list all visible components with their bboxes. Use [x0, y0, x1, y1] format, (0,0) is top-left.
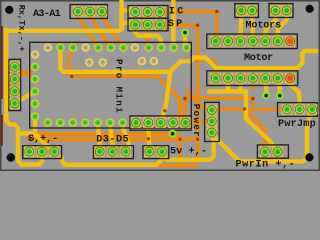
svg-text:Motor: Motor [244, 53, 273, 64]
wire top border horizontal [6, 29, 119, 33]
wire branch to header A pad3 [18, 134, 54, 152]
svg-text:Rx,Tx,-,+: Rx,Tx,-,+ [17, 5, 27, 52]
wire left header X diag 1 [15, 67, 35, 79]
header A3-A1 outline [70, 5, 108, 19]
wire U1 pad k1 to inter-row bus [60, 48, 316, 72]
wire Power pad3 to header C pad2 [162, 134, 213, 160]
wire Motors b2 pad1 diag to Motor1 [265, 17, 275, 41]
IC U1 Pro Mini outline [30, 42, 192, 128]
wire Motor2 pad2 stub down [226, 81, 230, 92]
header Power outline [205, 102, 220, 141]
wire stub into IC row2 pad1 [122, 23, 136, 25]
junction dot [251, 97, 254, 100]
header C pads [144, 146, 155, 157]
wire bar drop to bottom [180, 138, 194, 166]
header Power pads [207, 105, 218, 116]
header IC pads [130, 7, 141, 18]
wire U1 bottom to header B pad3 [123, 127, 129, 148]
wire via stub to U1 pad k11 [183, 33, 187, 48]
wire header L pad2 stub to bar2 [147, 127, 151, 139]
wire Motors b1 pad2 down to Motor1 [250, 17, 255, 41]
header Motors2 pads [270, 5, 281, 16]
svg-text:Pro Mini: Pro Mini [113, 59, 124, 114]
junction dot [183, 97, 186, 100]
header L outline [130, 116, 191, 130]
svg-text:SP: SP [168, 19, 185, 30]
wire Motor2 pad5 to via [263, 81, 268, 92]
mounting hole TR [306, 5, 314, 13]
header J-left outline [9, 59, 21, 110]
header Motors2 outline [269, 4, 293, 18]
header C outline [143, 146, 169, 159]
U1 bottom row pads [43, 118, 52, 127]
wire Motor2 red pad to PwrJmp pad2 [290, 81, 300, 109]
wire left header X diag 2 [15, 67, 35, 79]
board edge frame [1, 1, 320, 171]
junction dot [178, 138, 181, 141]
wire Power pad1 to PwrJmp pad1 [187, 91, 285, 109]
wire Motor2 pad4 stub [251, 81, 255, 89]
svg-text:D3-D5: D3-D5 [96, 134, 129, 145]
wire SP pad3 down right side to bottom [152, 25, 198, 165]
header Motor2 outline [207, 71, 298, 86]
wire U1 bottom to header B pad2 [110, 127, 113, 148]
mounting hole TL [5, 6, 13, 14]
via [276, 92, 284, 100]
svg-text:Motors: Motors [246, 21, 282, 32]
header PwrIn pads [260, 147, 271, 158]
header SP pads [130, 19, 141, 30]
U1 inner ring pads [85, 58, 94, 67]
wire bottom yellow run [62, 154, 162, 165]
svg-text:5v +,-: 5v +,- [170, 146, 207, 157]
via [181, 29, 189, 37]
wire branch V_B to Motor2 pad1 [198, 60, 216, 78]
svg-text:IC: IC [169, 7, 186, 18]
junction dot [196, 24, 199, 27]
header Motor1 outline [207, 34, 297, 49]
wire IC row2 pad1 to U1 pad k9 [135, 25, 161, 47]
wire orange y98 run into header L pad5 [185, 98, 253, 122]
junction dot [243, 107, 246, 110]
wire orange bar2 [29, 137, 198, 141]
svg-text:PwrIn +,-: PwrIn +,- [236, 160, 296, 171]
header A3-A1 pads [73, 6, 84, 17]
wire U1 inner vertical to bottom pad [161, 73, 170, 122]
wire Motors b1 pad1 down to Motor1 [238, 17, 243, 41]
header IC outline [128, 6, 168, 19]
header PwrJmp outline [278, 103, 318, 117]
wire top edge vertical into IC row2 pad1 [119, 0, 123, 30]
junction dot [163, 109, 166, 112]
U1 top row pads [44, 43, 53, 52]
header Motor1 pads [210, 36, 221, 47]
header SP outline [128, 18, 168, 31]
header L pads (shared with U1 bottom row) [131, 117, 142, 128]
header Motors1 pads [236, 5, 247, 16]
wire U1 bottom to header C pad1 [148, 127, 149, 148]
junction dot [147, 137, 150, 140]
header Motors1 outline [235, 4, 259, 18]
svg-text:Power: Power [191, 104, 202, 138]
via [262, 92, 270, 100]
wire left border vertical [6, 30, 42, 165]
wire junction to PwrIn pad1 [245, 109, 265, 150]
wire top edge vertical to U1 pad k10 [171, 0, 176, 47]
junction dot [70, 75, 73, 78]
header B outline [94, 146, 134, 159]
header A outline [23, 146, 62, 159]
header PwrJmp pads [282, 104, 293, 115]
wire U1 pad k2 down and right to U1 bottom pad (O mid) [69, 48, 180, 122]
wire FTDI pad6 stub down [33, 117, 37, 132]
wire A3 pad3 to U1 pad [102, 16, 123, 47]
wire A3 pad2 to U1 pad [90, 16, 110, 47]
wire Motor2 pad3 stub down [238, 81, 242, 92]
junction dot [196, 138, 199, 141]
header A pads [24, 146, 35, 157]
svg-text:S,+,-: S,+,- [28, 134, 58, 145]
header J-left pads [9, 62, 20, 73]
wire Motors b2 pad2 diag to Motor1 [278, 17, 287, 41]
svg-text:PwrJmp: PwrJmp [278, 119, 316, 130]
board outline silk (left maroon) [1, 26, 3, 99]
header PwrIn outline [257, 145, 288, 158]
wire Power pad3 diagonal to bottom right [212, 110, 312, 161]
wire mid bus to PwrIn pad2 [209, 92, 277, 151]
wire header L pad5 to Power pad2 [189, 120, 208, 124]
mounting hole BR [305, 153, 313, 161]
junction dot [215, 10, 218, 13]
board substrate [0, 0, 320, 171]
wire IC pad3 across top to Motor1 pad1 [162, 12, 217, 41]
wire stub into IC row1 pad1 [122, 10, 136, 12]
via [169, 130, 177, 138]
header Motor2 pads [210, 73, 221, 84]
header B pads [94, 146, 105, 157]
U1 FTDI column pads [31, 50, 40, 59]
mounting hole BL [7, 153, 15, 161]
wire U1 bottom to header B pad1 [98, 127, 100, 148]
wire Motor2 pad6 to via [278, 81, 280, 92]
wire left header pad4 diag to FTDI pad4 [15, 92, 35, 104]
wire IC row2 pad2 down to U1 top row [146, 25, 150, 47]
svg-text:A3-A1: A3-A1 [33, 9, 61, 20]
junction dot [28, 137, 31, 140]
wire orange bar1 [27, 134, 181, 137]
wire A3 pad1 to U1 pad [78, 16, 98, 47]
